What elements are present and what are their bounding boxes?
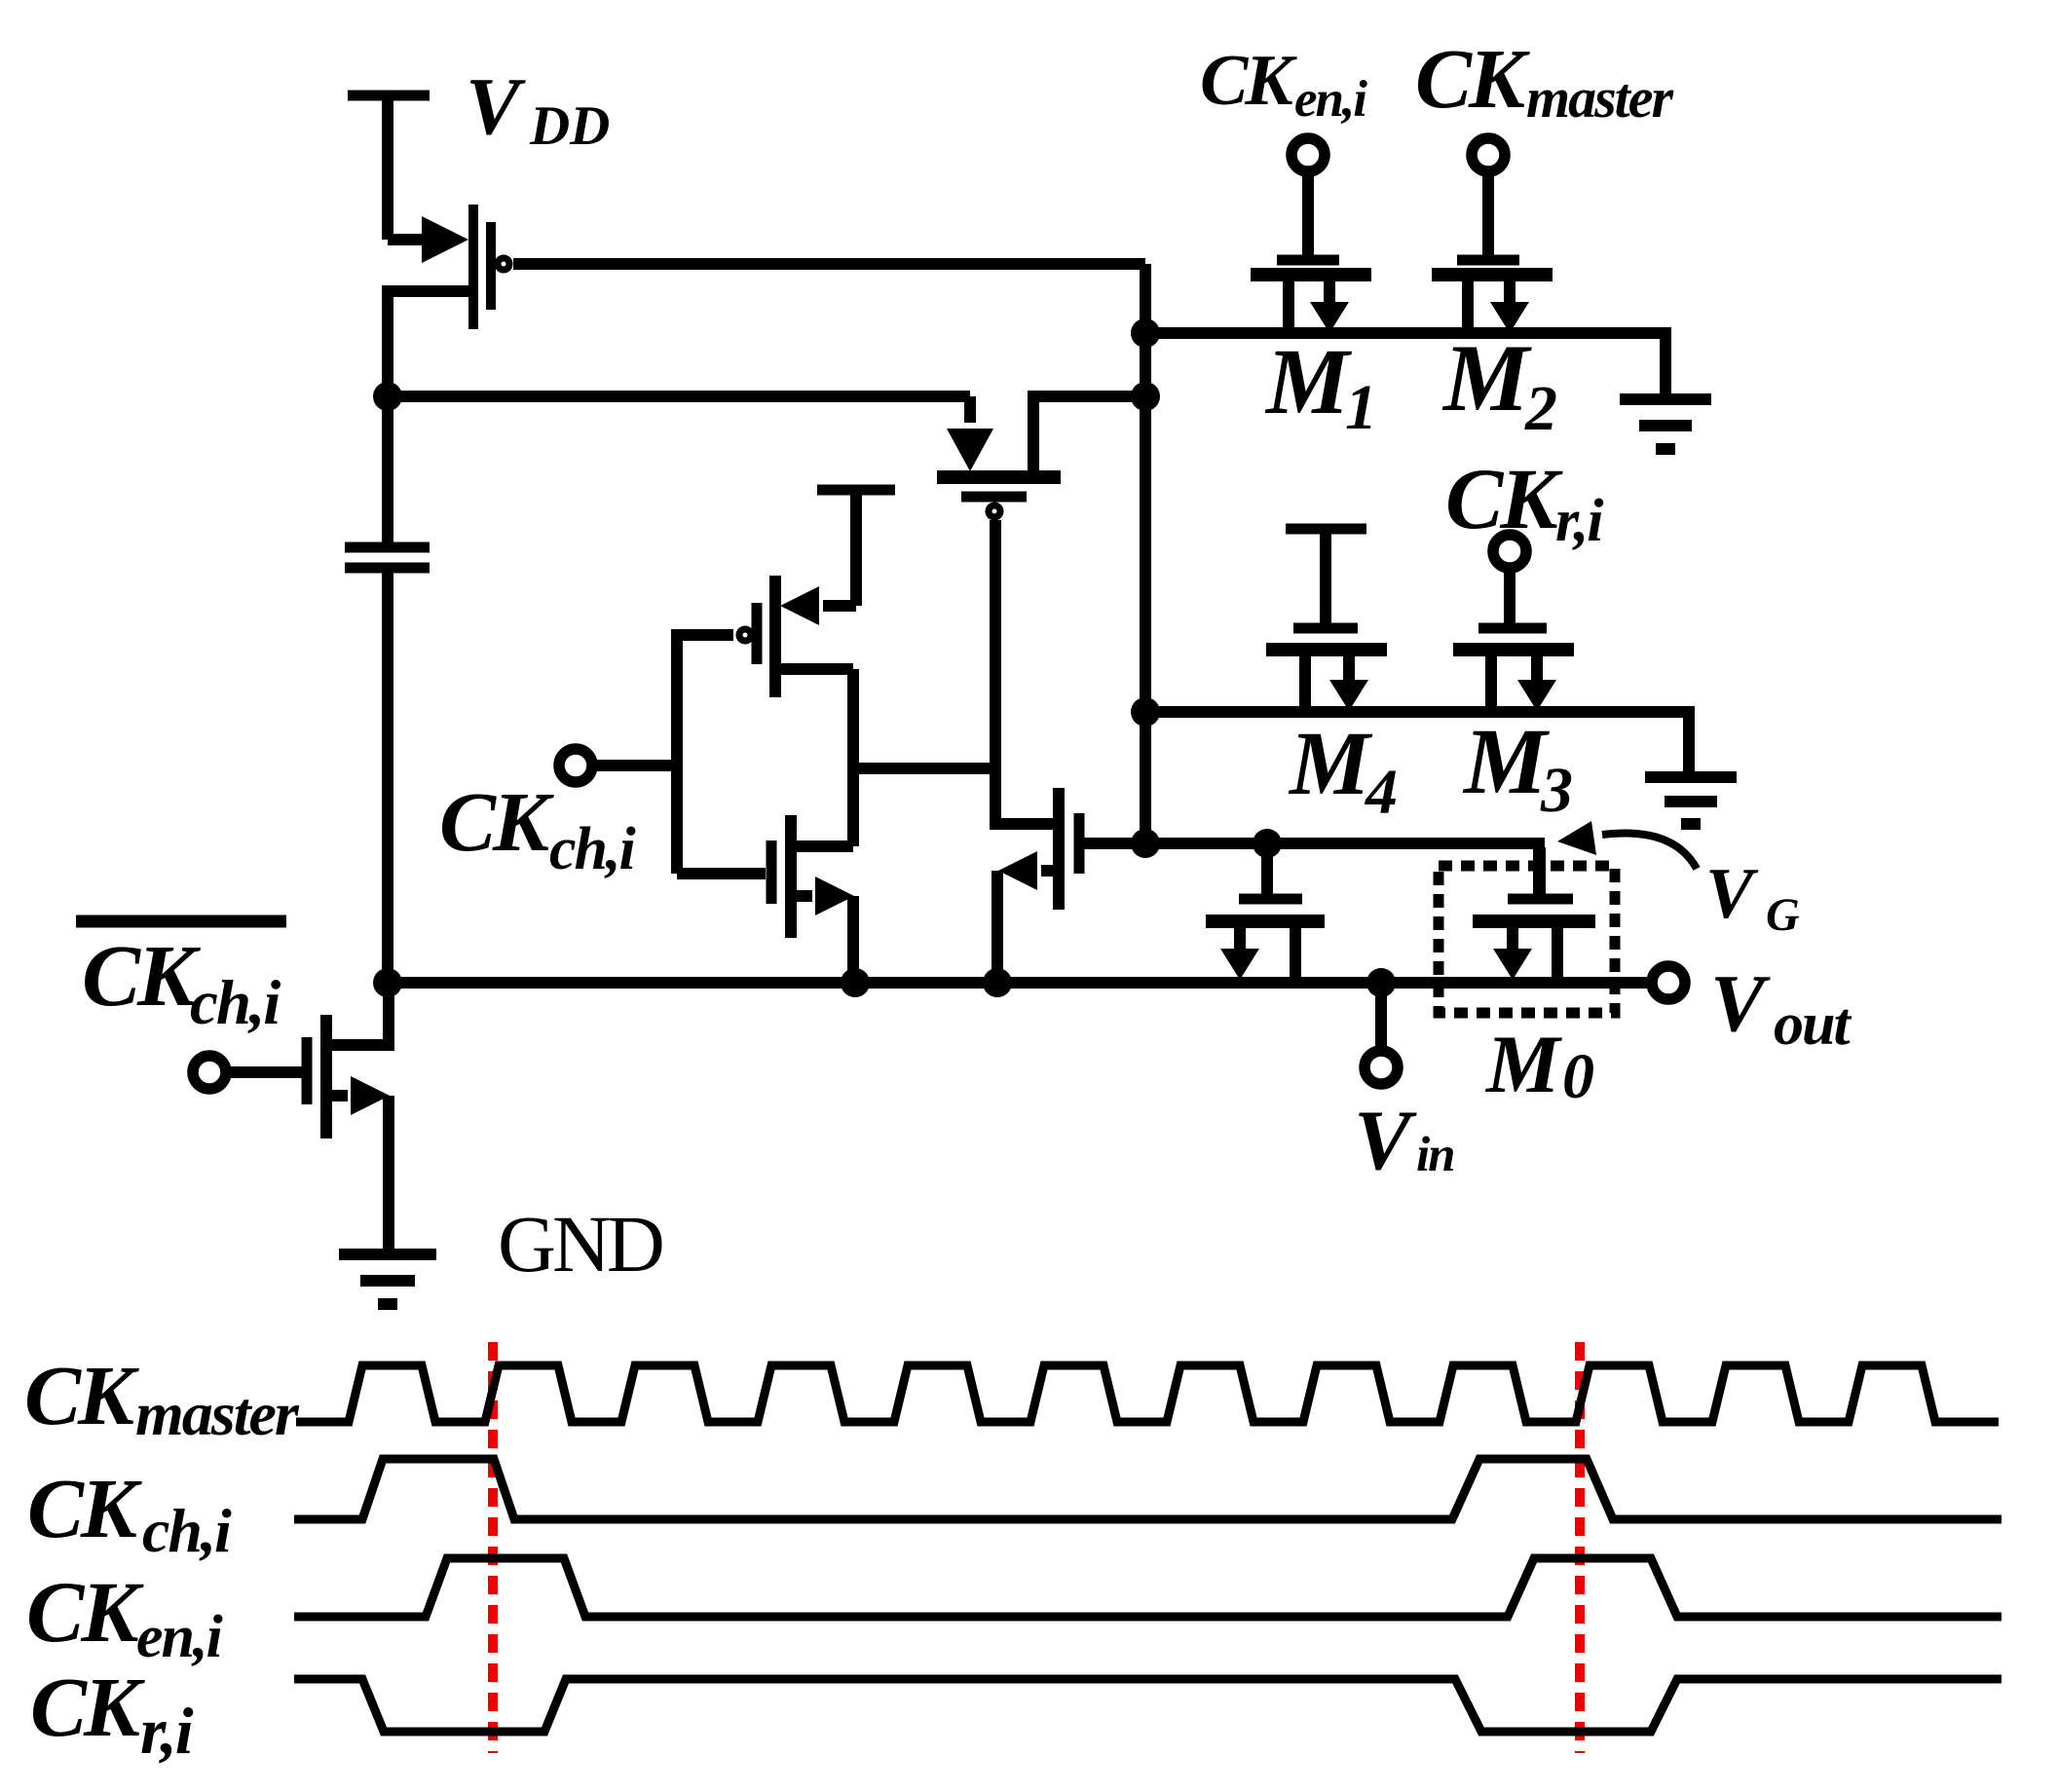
svg-text:in: in	[1416, 1128, 1454, 1182]
label CKch,i	[439, 774, 636, 882]
red marker line 2	[1575, 1342, 1585, 1753]
label Vout	[1710, 958, 1852, 1058]
node B junction dot	[1131, 318, 1160, 348]
label M2	[1441, 325, 1557, 444]
ground (M3)	[1645, 777, 1737, 824]
svg-text:CK: CK	[1200, 41, 1297, 121]
svg-text:CK: CK	[82, 928, 202, 1025]
svg-text:CK: CK	[30, 1660, 145, 1754]
svg-text:G: G	[1766, 889, 1800, 941]
label CKch,i-bar overline	[76, 915, 286, 928]
wire gate Q1 to node rail	[513, 258, 1145, 270]
wire node A to P2 source	[388, 391, 970, 402]
terminal Vout	[1652, 966, 1685, 999]
svg-text:r,i: r,i	[1555, 488, 1603, 554]
node A junction dot	[373, 382, 402, 411]
label CKen,i	[1200, 41, 1367, 128]
timing waveform CKch,i	[294, 1459, 2002, 1519]
label GND	[498, 1199, 662, 1288]
svg-text:1: 1	[1345, 372, 1377, 443]
label timing CKch,i	[27, 1461, 232, 1565]
junction dot bottom-left	[373, 968, 402, 997]
label M1	[1264, 329, 1377, 443]
svg-text:M: M	[1288, 714, 1373, 814]
svg-text:M: M	[1462, 709, 1551, 813]
svg-text:3: 3	[1540, 755, 1573, 826]
svg-text:4: 4	[1364, 757, 1398, 828]
transistor M4	[1266, 529, 1387, 712]
red marker line 1	[488, 1342, 498, 1753]
svg-text:M: M	[1264, 329, 1353, 433]
svg-text:en,i: en,i	[136, 1604, 223, 1670]
label timing CKr,i	[30, 1660, 194, 1768]
svg-text:ch,i: ch,i	[190, 968, 281, 1038]
label M0	[1484, 1019, 1594, 1112]
terminal CKch,i circle	[559, 749, 592, 782]
VG annotation arrow	[1557, 821, 1697, 869]
svg-text:CK: CK	[27, 1461, 142, 1555]
svg-text:master: master	[135, 1379, 300, 1448]
label Vin	[1354, 1094, 1454, 1188]
wire CKch,i to inverter input	[591, 760, 677, 771]
pass transistor Q3	[997, 788, 1145, 983]
inverter NMOS	[677, 815, 854, 983]
inverter input line	[677, 635, 733, 874]
node E junction dot	[1131, 829, 1160, 858]
transistor Q5 (Vin switch)	[1206, 843, 1325, 983]
svg-text:DD: DD	[529, 95, 610, 157]
ground (bottom-left)	[339, 1254, 436, 1304]
inverter PMOS	[739, 490, 895, 697]
svg-text:en,i: en,i	[1294, 71, 1367, 128]
junction dot pass source	[983, 968, 1012, 997]
right rail	[1140, 264, 1151, 843]
wire VG node	[1145, 843, 1539, 894]
wire P2 gate down to pass transistor drain	[995, 520, 1059, 824]
svg-text:CK: CK	[1415, 31, 1530, 126]
label CKmaster	[1415, 31, 1674, 130]
transistor Q4 NMOS (bottom-left)	[193, 983, 390, 1249]
transistor P2 (PMOS top-middle)	[937, 396, 1145, 517]
label CKr,i	[1445, 452, 1603, 554]
timing waveform CKen,i	[294, 1558, 2002, 1617]
inverter output rail	[847, 669, 859, 846]
svg-text:V: V	[466, 61, 526, 152]
node D junction dot	[1131, 697, 1160, 727]
junction dot inverter source	[841, 968, 870, 997]
bottom rail	[388, 977, 1653, 989]
svg-text:ch,i: ch,i	[549, 816, 636, 882]
wire M4 M3 node	[1145, 712, 1689, 776]
wire M1 M2 source-drain	[1145, 333, 1665, 395]
svg-text:M: M	[1484, 1019, 1562, 1110]
power symbol VDD	[348, 95, 430, 240]
label M4	[1288, 714, 1398, 828]
junction dot Vin	[1366, 968, 1396, 997]
svg-text:0: 0	[1562, 1041, 1594, 1112]
label timing CKen,i	[26, 1565, 223, 1670]
svg-text:CK: CK	[1445, 452, 1563, 547]
dashed box M0	[1439, 866, 1615, 1013]
transistor Q1 PMOS (top-left)	[388, 205, 509, 396]
svg-text:out: out	[1774, 991, 1852, 1058]
svg-text:r,i: r,i	[140, 1694, 194, 1768]
svg-text:V: V	[1705, 854, 1759, 934]
ground (M2)	[1620, 399, 1711, 449]
timing waveform CKr,i	[294, 1679, 2002, 1732]
label timing CKmaster	[24, 1348, 300, 1448]
transistor M2	[1432, 138, 1553, 333]
svg-text:V: V	[1354, 1094, 1417, 1188]
node F junction dot	[1253, 829, 1282, 858]
svg-text:2: 2	[1524, 373, 1557, 444]
label M3	[1462, 709, 1573, 826]
terminal Vin	[1365, 983, 1398, 1084]
svg-text:CK: CK	[26, 1565, 144, 1661]
timing waveform CKmaster	[296, 1365, 1999, 1422]
inverter output wire	[853, 763, 995, 774]
label VDD	[466, 61, 610, 157]
transistor M3	[1453, 535, 1574, 712]
wire left rail capacitor to bottom rail	[382, 568, 393, 983]
svg-text:master: master	[1526, 66, 1674, 130]
label VG	[1705, 854, 1800, 941]
svg-text:ch,i: ch,i	[142, 1496, 232, 1565]
svg-text:V: V	[1710, 958, 1771, 1049]
label CKch,i-bar	[82, 928, 281, 1038]
node C junction dot	[1131, 382, 1160, 411]
transistor M0	[1473, 847, 1595, 983]
svg-text:CK: CK	[24, 1348, 139, 1442]
transistor M1	[1251, 138, 1371, 333]
svg-text:GND: GND	[498, 1199, 662, 1288]
capacitor C1	[345, 396, 430, 568]
svg-text:M: M	[1441, 325, 1532, 431]
svg-text:CK: CK	[439, 774, 554, 869]
